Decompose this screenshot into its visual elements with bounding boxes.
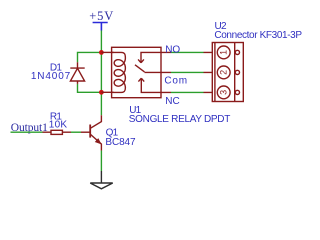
- relay switch NC contact arm w/ up arrow: [138, 78, 161, 92]
- relay switch blade: [135, 65, 145, 72]
- relay coil pin left bottom: [101, 91, 113, 93]
- relay switch COM line: [145, 71, 162, 73]
- svg-text:3: 3: [219, 90, 229, 95]
- svg-text:1: 1: [219, 50, 229, 55]
- svg-text:NC: NC: [165, 96, 179, 107]
- screw circle 1: [235, 50, 239, 54]
- relay coil pin left top: [101, 51, 113, 53]
- wire Com net: [171, 71, 204, 73]
- connector inner verticals: [215, 43, 235, 102]
- diode D1 symbol (cathode bar + triangle): [70, 68, 84, 81]
- svg-text:Connector KF301-3P: Connector KF301-3P: [214, 30, 302, 41]
- connector U2 body: [212, 43, 243, 102]
- power +5V bar symbol: [93, 23, 108, 31]
- screw circle 3: [235, 90, 239, 94]
- terminal circle pin 1: [217, 46, 230, 59]
- svg-text:10K: 10K: [49, 119, 68, 130]
- relay U1 box: [112, 47, 161, 97]
- resistor R1 body: [51, 130, 62, 134]
- svg-text:SONGLE RELAY DPDT: SONGLE RELAY DPDT: [129, 114, 230, 125]
- connector U2 pins 1-3: [204, 52, 213, 92]
- screw circle 2: [235, 70, 239, 74]
- transistor Q1 emitter arrow: [95, 139, 101, 144]
- transistor Q1 collector: [91, 115, 102, 128]
- node junction bottom: [99, 90, 104, 95]
- svg-text:+5V: +5V: [89, 9, 114, 23]
- relay switch NO contact arm w/ down arrow: [138, 52, 161, 62]
- resistor R1 leads: [43, 131, 72, 133]
- transistor Q1 base pin: [81, 131, 90, 133]
- wire resistor to base: [71, 131, 81, 133]
- node junction top (rail / relay coil / D1): [99, 50, 104, 55]
- wire NO net: [171, 51, 204, 53]
- ground symbol: [90, 171, 113, 189]
- terminal circle pin 2: [217, 66, 230, 79]
- wire: +5V vertical rail down to transistor collector: [100, 31, 102, 116]
- wire emitter to ground: [100, 151, 102, 171]
- svg-text:Com: Com: [164, 75, 188, 86]
- relay right pins NO/COM/NC: [161, 52, 171, 92]
- svg-text:2: 2: [219, 70, 229, 75]
- wire: top branch to diode D1: [78, 52, 102, 92]
- wire NC net: [171, 91, 204, 93]
- transistor Q1 base bar: [89, 125, 91, 138]
- transistor Q1 emitter: [91, 134, 102, 150]
- wire Output1: [11, 131, 43, 133]
- svg-text:NO: NO: [165, 44, 180, 55]
- terminal circle pin 3: [217, 86, 230, 99]
- relay coil winding: [112, 52, 126, 92]
- diode D1 leads: [77, 62, 79, 84]
- svg-text:BC847: BC847: [105, 137, 136, 148]
- svg-text:1N4007: 1N4007: [31, 71, 71, 82]
